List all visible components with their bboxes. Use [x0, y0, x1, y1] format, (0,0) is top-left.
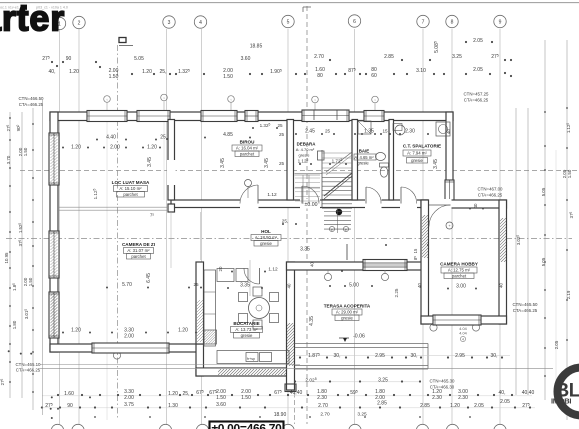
svg-text:LOC LUAT MASA: LOC LUAT MASA — [112, 180, 150, 185]
wall return line hol — [346, 244, 348, 260]
svg-text:3.45: 3.45 — [147, 157, 153, 167]
axis dash-dot line x=117.5 — [117, 45, 119, 418]
svg-text:A: 18.50 m²: A: 18.50 m² — [255, 235, 278, 240]
grid circles bottom partial — [51, 424, 63, 429]
svg-text:2.95: 2.95 — [375, 353, 385, 359]
svg-text:A: 4.70 m²: A: 4.70 m² — [296, 147, 315, 152]
svg-text:2.19: 2.19 — [566, 290, 571, 299]
svg-text:3.45: 3.45 — [264, 158, 270, 168]
svg-text:TERASA ACOPERITA: TERASA ACOPERITA — [324, 304, 371, 309]
open boundary lines loc luat masa - camera de zi — [58, 206, 167, 208]
svg-text:30,: 30, — [334, 353, 341, 359]
staircase treads — [295, 150, 353, 208]
svg-text:3.60: 3.60 — [216, 402, 226, 408]
kitchen terrace wall — [287, 262, 295, 390]
svg-text:2.70: 2.70 — [320, 412, 330, 418]
svg-text:3.35: 3.35 — [240, 283, 250, 289]
camera hobby top wall — [421, 200, 507, 208]
grid circle 1 — [53, 17, 65, 29]
svg-text:25: 25 — [277, 123, 283, 128]
window axis circles south walls — [113, 352, 120, 359]
svg-text:25,: 25, — [183, 391, 190, 397]
window axis vertical line x164 — [163, 101, 165, 200]
svg-text:e: e — [331, 228, 333, 232]
level box 0.00=466.70 — [210, 422, 284, 429]
svg-text:25: 25 — [325, 129, 331, 134]
kitchen counter left — [204, 270, 216, 346]
section bracket top — [303, 7, 311, 12]
door opening baie — [365, 199, 382, 209]
door opening birou — [240, 199, 259, 209]
kitchen table — [249, 298, 270, 319]
svg-text:40: 40 — [310, 262, 315, 267]
svg-text:2.05: 2.05 — [554, 340, 559, 349]
svg-text:4.04: 4.04 — [459, 332, 466, 336]
ct counter — [393, 124, 402, 131]
svg-text:fr+sp: fr+sp — [247, 357, 255, 361]
kitchen terrace wall footing — [285, 384, 296, 392]
partition stairs - baie — [352, 120, 358, 201]
left dim column lines — [9, 112, 11, 398]
door opening debara — [300, 199, 320, 209]
svg-text:2.05: 2.05 — [474, 403, 484, 409]
svg-text:25: 25 — [160, 135, 166, 141]
thin line partition continuation — [170, 212, 172, 268]
hobby right wall hatch — [456, 218, 548, 262]
window axis vertical line x107 — [106, 103, 108, 420]
hobby door handle circle — [446, 222, 453, 229]
svg-text:2.25: 2.25 — [394, 288, 399, 297]
svg-text:40,: 40, — [49, 69, 56, 75]
svg-text:9: 9 — [499, 20, 502, 26]
top border rule — [0, 2, 579, 4]
west wall lower hatch — [7, 293, 99, 337]
grid circle 2 — [73, 16, 85, 28]
svg-text:5.05: 5.05 — [541, 187, 546, 196]
svg-text:4.04: 4.04 — [459, 327, 466, 331]
north wall window 3 — [201, 111, 237, 122]
svg-text:1.20: 1.20 — [168, 391, 178, 397]
kitchen sink — [246, 353, 258, 362]
svg-text:C.T. SPALATORIE: C.T. SPALATORIE — [403, 144, 441, 149]
svg-text:CTN=467.00: CTN=467.00 — [477, 187, 503, 192]
grid circle 5 — [282, 15, 294, 27]
svg-text:parchet: parchet — [131, 254, 146, 259]
top toolbar black square — [21, 5, 28, 10]
svg-text:CTA=466.25: CTA=466.25 — [16, 368, 41, 373]
kitchen south wall — [196, 368, 291, 376]
svg-text:A: 15.10 m²: A: 15.10 m² — [119, 186, 142, 191]
svg-text:40: 40 — [499, 283, 504, 288]
svg-text:A: 29.00 m²: A: 29.00 m² — [336, 310, 359, 315]
kitchen terrace wall window hatch — [244, 323, 335, 366]
svg-text:1.50: 1.50 — [109, 74, 119, 80]
svg-text:2.00: 2.00 — [124, 334, 134, 340]
svg-text:2.85: 2.85 — [377, 401, 387, 407]
left stair flight treads — [295, 177, 320, 179]
dim chain line y395 — [42, 395, 532, 397]
svg-text:2.05: 2.05 — [473, 67, 483, 73]
svg-text:1.50: 1.50 — [23, 147, 28, 156]
grid lines vertical — [60, 29, 501, 424]
svg-text:1.30: 1.30 — [168, 403, 178, 409]
svg-text:1.20: 1.20 — [147, 145, 157, 151]
svg-text:A: 16.04 m²: A: 16.04 m² — [236, 146, 259, 151]
svg-text:6: 6 — [353, 19, 356, 25]
south wall window — [92, 343, 169, 353]
svg-text:90: 90 — [66, 56, 72, 62]
west wall window 1 — [49, 133, 59, 185]
svg-text:4: 4 — [199, 20, 202, 26]
svg-text:BAIE: BAIE — [359, 149, 370, 154]
ct washer — [436, 122, 450, 136]
svg-text:gresie: gresie — [299, 153, 311, 158]
terrace slab edge lines — [295, 343, 429, 345]
kitchen bottom counter — [217, 351, 289, 364]
black level dot — [336, 209, 342, 215]
north exterior wall — [50, 112, 453, 121]
debara inner lines — [295, 174, 321, 176]
svg-text:2.45: 2.45 — [305, 129, 315, 135]
svg-text:40: 40 — [417, 283, 422, 288]
grid circle 9 — [494, 15, 506, 27]
svg-text:4.35: 4.35 — [309, 316, 315, 326]
svg-text:1.20: 1.20 — [69, 69, 79, 75]
svg-text:parchet: parchet — [123, 192, 138, 197]
svg-text:3.25: 3.25 — [378, 378, 388, 384]
svg-text:2.70: 2.70 — [318, 403, 328, 409]
door arc debara — [302, 186, 319, 204]
svg-text:gresie: gresie — [241, 333, 253, 338]
svg-text:±0.00=466.70: ±0.00=466.70 — [211, 422, 282, 429]
svg-text:4.85: 4.85 — [223, 132, 233, 138]
svg-text:1.60: 1.60 — [64, 391, 74, 397]
svg-text:3.35: 3.35 — [300, 247, 310, 253]
top dim dots — [56, 65, 58, 67]
svg-text:3.70: 3.70 — [6, 155, 11, 164]
north wall window 1 — [87, 111, 127, 122]
svg-text:7: 7 — [422, 20, 425, 26]
svg-text:1.12: 1.12 — [268, 267, 278, 273]
svg-text:gresie: gresie — [411, 158, 423, 163]
svg-text:2.30: 2.30 — [405, 129, 415, 135]
svg-text:3.25: 3.25 — [357, 412, 367, 418]
north wall window 5 stairs — [302, 110, 349, 122]
kitchen fridge — [217, 269, 234, 282]
east exterior wall upper — [446, 112, 453, 208]
svg-text:3: 3 — [168, 20, 171, 26]
svg-text:3.60: 3.60 — [241, 56, 251, 62]
svg-text:A: 12.75 m²: A: 12.75 m² — [448, 268, 471, 273]
hol symbol circles — [329, 226, 334, 231]
bottom dim row y380 — [296, 381, 420, 383]
hobby door opening — [429, 199, 452, 209]
svg-text:5.05: 5.05 — [134, 56, 144, 62]
partition loc luat masa - birou — [168, 120, 175, 201]
long dim line to logo y368 — [40, 367, 553, 369]
svg-text:2.30: 2.30 — [458, 395, 468, 401]
svg-text:A: 31.07 m²: A: 31.07 m² — [127, 248, 150, 253]
svg-text:arter: arter — [0, 0, 65, 39]
svg-text:CTN=465.30: CTN=465.30 — [429, 379, 455, 384]
grid circle 3 — [163, 16, 175, 28]
partition baie - ct — [389, 120, 394, 201]
svg-text:15: 15 — [413, 248, 418, 253]
svg-text:5: 5 — [287, 20, 290, 26]
svg-text:25: 25 — [193, 282, 199, 287]
hobby left wall hatch — [379, 215, 470, 258]
terrace north wall — [287, 262, 429, 270]
svg-text:CTA=466.25: CTA=466.25 — [478, 193, 503, 198]
svg-text:25,: 25, — [160, 69, 167, 75]
svg-text:CTA=466.30: CTA=466.30 — [430, 385, 455, 390]
svg-text:2.30: 2.30 — [317, 395, 327, 401]
east wall window — [445, 180, 454, 205]
svg-text:A: 13.73 m²: A: 13.73 m² — [235, 327, 258, 332]
svg-text:CTA=466.25: CTA=466.25 — [513, 308, 538, 313]
debara duct rect — [318, 151, 325, 160]
svg-text:1.20: 1.20 — [71, 328, 81, 334]
svg-text:CAMERA HOBBY: CAMERA HOBBY — [440, 262, 478, 267]
svg-text:25: 25 — [279, 161, 285, 166]
svg-text:CTN=465.50: CTN=465.50 — [512, 302, 538, 307]
svg-text:6.45: 6.45 — [146, 273, 152, 283]
axis dashed x=294.5 lower — [294, 370, 296, 424]
section dash line x=307 — [306, 6, 308, 424]
svg-text:-0.06: -0.06 — [353, 334, 365, 340]
svg-text:HOL: HOL — [261, 229, 271, 234]
svg-text:40,: 40, — [499, 390, 506, 396]
svg-text:2.85: 2.85 — [384, 54, 394, 60]
dim chain line y355 — [296, 355, 510, 357]
svg-text:18.85: 18.85 — [250, 44, 263, 50]
axis dashed horizontal y=238.5 — [6, 238, 572, 240]
svg-text:1.50: 1.50 — [223, 74, 233, 80]
svg-text:CTA=466.25: CTA=466.25 — [19, 102, 44, 107]
north wall window 2 — [137, 111, 170, 122]
svg-text:CTA=466.25: CTA=466.25 — [464, 98, 489, 103]
terrace window axis circles — [324, 273, 331, 280]
svg-text:2.30: 2.30 — [432, 395, 442, 401]
logo BL Imobiliare — [551, 368, 579, 416]
svg-text:1.50: 1.50 — [216, 395, 226, 401]
svg-text:2.00: 2.00 — [110, 145, 120, 151]
partition birou - debara — [287, 120, 294, 201]
grid circle 6 — [348, 15, 360, 27]
svg-text:2.85: 2.85 — [420, 403, 430, 409]
svg-text:40: 40 — [446, 129, 451, 134]
svg-text:gresie: gresie — [357, 161, 369, 166]
svg-text:2.05: 2.05 — [500, 399, 510, 405]
svg-text:parchet: parchet — [452, 274, 467, 279]
svg-text:4.40: 4.40 — [106, 135, 116, 141]
door arc birou — [240, 185, 258, 204]
extra dots bottom left — [51, 396, 53, 398]
grid circle 4 — [194, 16, 206, 28]
svg-text:25: 25 — [279, 132, 285, 137]
kitchen stove hatch — [204, 330, 217, 344]
svg-text:4: 4 — [462, 338, 464, 342]
svg-text:A: 4.65 m²: A: 4.65 m² — [354, 155, 374, 160]
svg-text:20: 20 — [218, 266, 223, 271]
svg-text:18.90: 18.90 — [274, 412, 287, 418]
svg-text:e: e — [345, 228, 347, 232]
svg-text:gresie: gresie — [260, 241, 272, 246]
door opening ct — [400, 199, 417, 209]
north wall window 4 — [245, 111, 258, 122]
interior dim dots scatter — [62, 147, 64, 149]
right dim column lines — [515, 108, 517, 395]
baie sink — [376, 153, 386, 161]
south step wall — [196, 344, 204, 376]
svg-text:A: 7.94 m²: A: 7.94 m² — [407, 151, 427, 156]
svg-text:30,: 30, — [411, 353, 418, 359]
svg-text:40: 40 — [287, 283, 292, 288]
terrace north wall window — [363, 260, 407, 271]
kitchen chairs — [239, 293, 248, 302]
svg-text:parchet: parchet — [240, 152, 255, 157]
svg-text:5.70: 5.70 — [122, 282, 132, 288]
camera hobby right wall — [499, 200, 507, 324]
svg-text:90: 90 — [67, 403, 73, 409]
svg-text:2.00: 2.00 — [124, 395, 134, 401]
svg-text:2.05: 2.05 — [473, 38, 483, 44]
birou symbol circle — [245, 180, 252, 187]
svg-text:1.12: 1.12 — [267, 192, 277, 198]
upper band internal wall south — [171, 200, 453, 208]
svg-text:3.00: 3.00 — [456, 284, 466, 290]
west wall window 2 — [49, 231, 59, 278]
svg-text:25,: 25, — [282, 219, 288, 224]
svg-text:15: 15 — [382, 129, 388, 134]
svg-text:CTN=465.10: CTN=465.10 — [15, 362, 41, 367]
svg-text:40,40: 40,40 — [290, 390, 303, 396]
svg-text:30,: 30, — [491, 353, 498, 359]
svg-text:80: 80 — [317, 73, 323, 79]
hol west wall hatch — [155, 300, 242, 342]
svg-text:3.25: 3.25 — [452, 54, 462, 60]
svg-text:40: 40 — [473, 203, 478, 208]
svg-text:BIROU: BIROU — [240, 140, 255, 145]
axis dashed horizontal y=170.5 — [20, 170, 577, 172]
svg-text:8: 8 — [451, 20, 454, 26]
hobby bottom window — [433, 315, 481, 325]
svg-text:1.20: 1.20 — [142, 69, 152, 75]
dim chain line y407 — [40, 407, 535, 409]
svg-text:10.95: 10.95 — [4, 252, 9, 264]
svg-text:1.35: 1.35 — [364, 129, 374, 135]
door arc baie — [366, 187, 381, 204]
grid circle 8 — [446, 15, 458, 27]
left dim dots — [9, 117, 11, 119]
svg-text:5.00: 5.00 — [349, 283, 359, 289]
svg-text:IMOBI: IMOBI — [551, 397, 571, 406]
baie shower rect — [358, 121, 371, 134]
svg-text:±0.00: ±0.00 — [305, 202, 318, 208]
svg-text:2.95: 2.95 — [455, 353, 465, 359]
svg-text:3.10: 3.10 — [416, 68, 426, 74]
svg-text:CTN=466.50: CTN=466.50 — [18, 96, 44, 101]
svg-text:3.75: 3.75 — [124, 402, 134, 408]
hol west wall — [196, 262, 204, 344]
door arc ct spalatorie — [401, 187, 417, 204]
svg-text:gresie: gresie — [341, 316, 353, 321]
svg-text:3.45: 3.45 — [433, 159, 439, 169]
north wall window 6 — [364, 111, 384, 122]
right dim dots — [544, 111, 546, 113]
svg-text:3.45: 3.45 — [220, 158, 226, 168]
section D marker top — [119, 38, 133, 46]
svg-text:BUCATARIE: BUCATARIE — [233, 321, 259, 326]
svg-text:2: 2 — [78, 21, 81, 27]
stairs lower treads — [324, 208, 351, 233]
svg-text:1.50: 1.50 — [28, 277, 33, 286]
door arc kitchen — [244, 268, 260, 284]
svg-text:1.50: 1.50 — [567, 169, 572, 178]
stair railing diagonal — [326, 152, 352, 172]
window axis circles north wall — [104, 96, 111, 103]
camera hobby left wall — [421, 200, 429, 324]
svg-text:1.20: 1.20 — [178, 328, 188, 334]
grid circle 7 — [417, 15, 429, 27]
svg-text:1.20: 1.20 — [71, 145, 81, 151]
svg-text:1.50: 1.50 — [241, 395, 251, 401]
svg-text:60: 60 — [371, 73, 377, 79]
svg-text:1.20: 1.20 — [450, 403, 460, 409]
svg-text:DEBARA: DEBARA — [297, 142, 317, 147]
svg-text:2.70: 2.70 — [314, 54, 324, 60]
svg-text:CTN=457.25: CTN=457.25 — [463, 92, 489, 97]
door arc hobby — [429, 205, 451, 227]
ct boiler — [395, 125, 405, 135]
camera hobby bottom wall — [421, 316, 507, 324]
west exterior wall — [50, 112, 58, 352]
svg-text:CAMERA DE ZI: CAMERA DE ZI — [122, 242, 155, 247]
staircase diagonal — [324, 173, 352, 196]
west wall window 3 — [49, 292, 59, 338]
partition stub below internal wall — [168, 204, 175, 212]
bottom dim row extra dots y415 — [94, 416, 96, 418]
south wall living room — [50, 344, 203, 352]
svg-text:1.80: 1.80 — [12, 320, 17, 329]
baie toilet — [380, 163, 389, 177]
